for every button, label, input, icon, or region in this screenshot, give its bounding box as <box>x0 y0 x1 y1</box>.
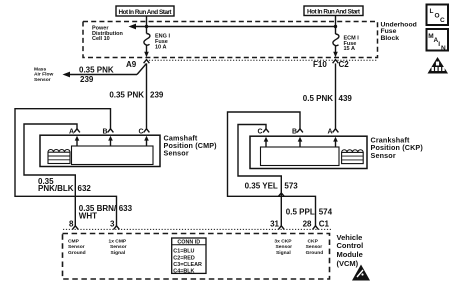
svg-text:I: I <box>438 41 440 48</box>
wire: PNK 239 down to CMP pin C <box>146 63 148 128</box>
svg-text:1x CMP: 1x CMP <box>109 239 127 245</box>
label 0.35 YEL | 573 <box>245 182 299 191</box>
svg-text:CONN ID: CONN ID <box>177 239 200 245</box>
svg-text:C1: C1 <box>319 220 330 229</box>
svg-text:Signal: Signal <box>111 250 126 256</box>
label 0.35 PNK / 239 (MAF branch) <box>79 65 114 84</box>
wire: drop from hot box 1 <box>146 16 148 34</box>
svg-text:0.35 PNK: 0.35 PNK <box>109 90 144 99</box>
label 0.5 PPL | 574 <box>286 208 333 217</box>
wire: branch to mass air flow sensor <box>63 63 147 77</box>
svg-text:C4=BLK: C4=BLK <box>173 269 194 275</box>
svg-text:A: A <box>328 129 333 136</box>
underhood fuse block dashed box <box>83 22 378 58</box>
label CKP Sensor Ground <box>306 239 324 256</box>
svg-text:Hot In Run And Start: Hot In Run And Start <box>307 8 361 15</box>
wire: CKP pin C route to VCM pin 31 <box>238 125 281 226</box>
crossover caret at bus <box>278 193 284 196</box>
svg-text:439: 439 <box>339 94 353 103</box>
svg-text:CKP: CKP <box>308 239 319 245</box>
svg-text:3: 3 <box>110 220 115 229</box>
svg-text:L: L <box>430 8 434 15</box>
hot in run and start label box 1 <box>116 6 174 16</box>
CMP pin arrows A B C <box>75 136 149 146</box>
camshaft position sensor outer box <box>40 135 160 166</box>
terminal caret CKP B <box>297 129 303 133</box>
svg-text:Ground: Ground <box>306 250 324 256</box>
svg-text:10 A: 10 A <box>155 44 166 50</box>
svg-text:0.35 YEL: 0.35 YEL <box>245 182 278 191</box>
label 0.35 PNK | 239 <box>109 90 164 99</box>
VCM pin labels 8 3 31 28 C1 <box>69 220 329 229</box>
label Underhood Fuse Block <box>381 22 417 42</box>
svg-text:574: 574 <box>319 208 333 217</box>
wire: ECM fuse to F10 arrow <box>333 45 338 57</box>
connector dotted line under fuse block <box>146 59 377 61</box>
label ENG I Fuse 10 A <box>155 34 170 51</box>
svg-text:239: 239 <box>150 90 164 99</box>
svg-text:573: 573 <box>284 182 298 191</box>
svg-text:Sensor: Sensor <box>276 244 293 250</box>
svg-text:(VCM): (VCM) <box>337 259 359 268</box>
CKP inner body <box>261 147 340 166</box>
wire: feed bus with left arrow <box>129 24 336 30</box>
svg-text:Cell 10: Cell 10 <box>92 36 110 42</box>
svg-text:Sensor: Sensor <box>306 244 323 250</box>
svg-text:Ground: Ground <box>68 250 86 256</box>
wire: CMP pin A route to VCM pin 8 <box>24 124 77 226</box>
svg-text:Block: Block <box>381 35 400 42</box>
svg-text:N: N <box>441 45 446 52</box>
label 1x CMP Sensor Signal <box>109 239 127 256</box>
CMP inner body <box>72 146 154 165</box>
svg-text:C: C <box>440 17 445 24</box>
CKP coil (pickup) <box>342 150 364 164</box>
MAIN icon box <box>427 29 449 52</box>
terminal F10 caret <box>333 60 339 64</box>
LOC icon box <box>427 5 449 26</box>
wire: CKP pin B route to VCM pin 28 <box>228 112 316 226</box>
label CMP Sensor Ground <box>68 239 86 256</box>
svg-text:C: C <box>258 129 263 136</box>
CKP pin arrows C B A <box>264 137 338 147</box>
svg-text:WHT: WHT <box>79 212 97 221</box>
svg-text:Mass: Mass <box>34 66 47 72</box>
vehicle control module dashed box <box>63 234 330 280</box>
svg-text:B: B <box>292 129 297 136</box>
label 0.35 | PNK/BLK | 632 <box>38 177 91 193</box>
svg-text:0.5 PPL: 0.5 PPL <box>286 208 315 217</box>
svg-text:3x CKP: 3x CKP <box>274 239 292 245</box>
VCM terminal carets <box>72 226 78 230</box>
svg-text:PNK/BLK: PNK/BLK <box>38 184 74 193</box>
wire: PNK 439 down to CKP pin A <box>335 63 337 128</box>
svg-text:31: 31 <box>270 220 279 229</box>
wire: drop from hot box 2 <box>335 16 337 35</box>
svg-text:Sensor: Sensor <box>68 244 85 250</box>
wire: CMP pin B route to VCM pin 3 <box>15 109 117 226</box>
junction dot <box>334 25 337 28</box>
CMP coil (pickup) <box>48 149 70 163</box>
label Mass Air Flow Sensor <box>34 66 53 82</box>
hot in run and start label box 2 <box>304 6 363 16</box>
svg-text:C1=BLU: C1=BLU <box>173 249 194 255</box>
label Vehicle Control Module (VCM) <box>337 233 364 268</box>
CONN ID table <box>172 238 206 275</box>
terminal caret CMP A <box>74 129 80 133</box>
svg-text:632: 632 <box>78 184 92 193</box>
label 3x CKP Sensor Signal <box>274 239 292 256</box>
wire: ENG fuse to A9 arrow <box>144 45 149 58</box>
svg-text:Control: Control <box>337 241 364 250</box>
label Power Distribution Cell 10 <box>92 26 123 43</box>
hotline triangle icon <box>428 57 449 74</box>
label Crankshaft Position (CKP) Sensor <box>371 135 424 159</box>
terminal caret CKP C <box>263 129 269 133</box>
VCM connector dotted line <box>63 228 331 230</box>
svg-text:C2=RED: C2=RED <box>173 255 195 261</box>
svg-text:Sensor: Sensor <box>371 151 396 160</box>
svg-text:15 A: 15 A <box>344 46 355 52</box>
ESD triangle symbol (bottom) <box>352 265 370 281</box>
terminal caret CMP B <box>108 129 114 133</box>
fuse ECM I (S symbol) <box>333 34 339 46</box>
svg-text:Sensor: Sensor <box>34 77 51 83</box>
svg-text:633: 633 <box>119 204 133 213</box>
svg-text:F10: F10 <box>313 60 327 69</box>
crankshaft position sensor outer box <box>250 136 367 168</box>
svg-text:Hot In Run And Start: Hot In Run And Start <box>119 9 173 16</box>
svg-text:C2: C2 <box>339 60 350 69</box>
label ECM I Fuse 15 A <box>344 36 360 53</box>
junction dot <box>145 25 148 28</box>
svg-text:Signal: Signal <box>276 250 291 256</box>
svg-text:28: 28 <box>303 220 312 229</box>
label 0.35 BRN/ WHT | 633 <box>79 204 133 221</box>
svg-text:Air Flow: Air Flow <box>34 72 53 78</box>
terminal A9 caret <box>144 60 150 64</box>
svg-text:CMP: CMP <box>68 239 80 245</box>
svg-text:C3=CLEAR: C3=CLEAR <box>173 262 202 268</box>
svg-text:0.5 PNK: 0.5 PNK <box>303 94 333 103</box>
svg-text:Sensor: Sensor <box>110 244 127 250</box>
svg-text:239: 239 <box>80 75 94 84</box>
svg-text:Module: Module <box>337 250 363 259</box>
svg-text:0.35 PNK: 0.35 PNK <box>79 65 114 74</box>
label Camshaft Position (CMP) Sensor <box>164 134 218 158</box>
svg-text:A9: A9 <box>126 60 137 69</box>
svg-text:O: O <box>435 13 440 20</box>
svg-text:Sensor: Sensor <box>164 148 189 157</box>
terminal caret CKP A <box>333 129 339 133</box>
fuse ENG I (S symbol) <box>144 34 150 46</box>
label 0.5 PNK | 439 <box>303 94 353 103</box>
terminal caret CMP C <box>144 129 150 133</box>
